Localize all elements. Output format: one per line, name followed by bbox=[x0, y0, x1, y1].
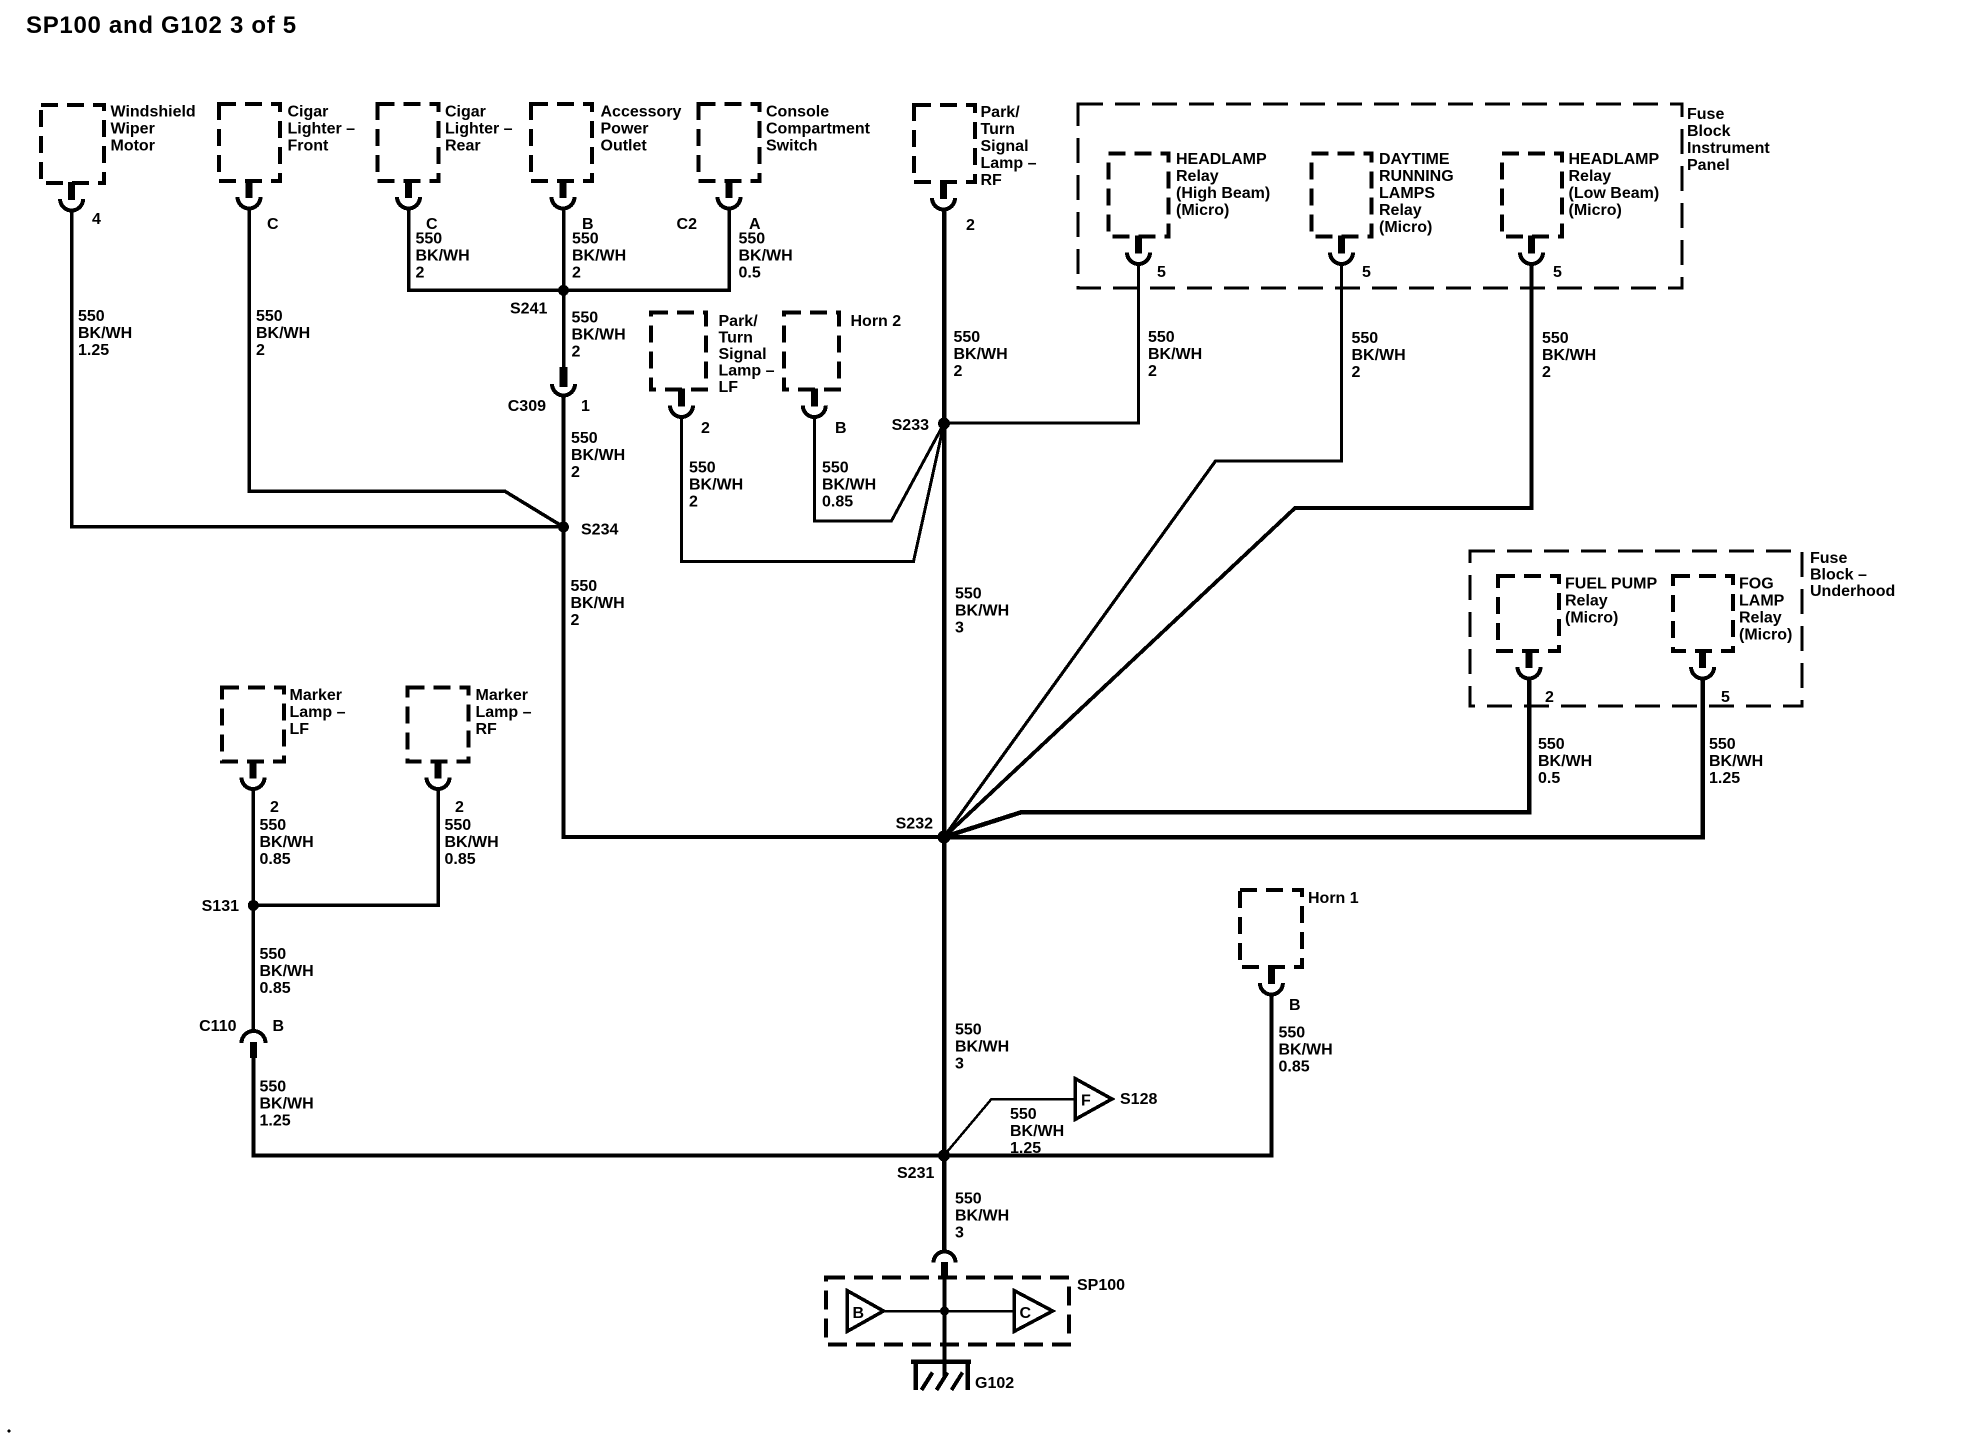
svg-text:(Micro): (Micro) bbox=[1565, 610, 1618, 627]
in-line connector above SP100 bbox=[934, 1252, 956, 1279]
svg-text:BK/WH: BK/WH bbox=[260, 1096, 314, 1113]
svg-text:BK/WH: BK/WH bbox=[1279, 1042, 1333, 1059]
svg-text:BK/WH: BK/WH bbox=[78, 325, 132, 342]
svg-text:1.25: 1.25 bbox=[1709, 770, 1740, 787]
svg-text:BK/WH: BK/WH bbox=[571, 447, 625, 464]
svg-text:BK/WH: BK/WH bbox=[955, 1039, 1009, 1056]
svg-text:550: 550 bbox=[1538, 736, 1565, 753]
relay U: HEADLAMP Relay (High Beam)(Micro) bbox=[1109, 151, 1271, 237]
svg-text:550: 550 bbox=[1148, 329, 1175, 346]
component box: Cigar Lighter - Front bbox=[219, 104, 355, 182]
wire: S231 to S128 bbox=[944, 1099, 1075, 1156]
component box: Cigar Lighter - Rear bbox=[378, 104, 513, 182]
wire label 550 BK/WH 1.25 below C110 bbox=[260, 1079, 314, 1130]
svg-text:G102: G102 bbox=[975, 1375, 1014, 1392]
svg-text:550: 550 bbox=[955, 1022, 982, 1039]
svg-text:B: B bbox=[1289, 997, 1301, 1014]
svg-text:2: 2 bbox=[270, 799, 279, 816]
svg-text:Front: Front bbox=[288, 138, 330, 155]
svg-text:550: 550 bbox=[1010, 1106, 1037, 1123]
component box: Accessory Power Outlet bbox=[531, 104, 682, 182]
svg-text:S232: S232 bbox=[896, 816, 933, 833]
wire label 550 BK/WH 2 bbox=[954, 329, 1008, 380]
svg-text:550: 550 bbox=[954, 329, 981, 346]
svg-text:BK/WH: BK/WH bbox=[260, 963, 314, 980]
wire label 550 BK/WH 1.25 on S128 branch bbox=[1010, 1106, 1064, 1157]
svg-text:5: 5 bbox=[1157, 264, 1166, 281]
in-line connector C309 pin 1 bbox=[508, 367, 590, 415]
svg-text:1: 1 bbox=[581, 398, 590, 415]
svg-text:RF: RF bbox=[476, 721, 498, 738]
svg-text:2: 2 bbox=[1545, 689, 1554, 706]
splice pack SP100 (dashed enclosure) bbox=[826, 1277, 1125, 1345]
svg-text:550: 550 bbox=[416, 231, 443, 248]
splice S234 bbox=[558, 522, 618, 539]
svg-text:SP100: SP100 bbox=[1077, 1277, 1125, 1294]
svg-text:0.85: 0.85 bbox=[1279, 1059, 1310, 1076]
svg-text:BK/WH: BK/WH bbox=[571, 595, 625, 612]
in-line connector C110 pin B bbox=[199, 1018, 284, 1058]
wire label 550 BK/WH 0.85 bbox=[445, 817, 499, 868]
svg-text:1.25: 1.25 bbox=[260, 1113, 291, 1130]
svg-text:BK/WH: BK/WH bbox=[739, 248, 793, 265]
svg-text:BK/WH: BK/WH bbox=[256, 325, 310, 342]
wire label 550 BK/WH 2 bbox=[1542, 330, 1596, 381]
svg-text:DAYTIME: DAYTIME bbox=[1379, 151, 1450, 168]
component box: Park/Turn Signal Lamp - RF bbox=[914, 104, 1037, 189]
wire: FUEL PUMP Relay to S232 bbox=[944, 677, 1529, 837]
svg-text:C309: C309 bbox=[508, 398, 546, 415]
svg-text:Motor: Motor bbox=[111, 138, 155, 155]
component box: Marker Lamp - RF bbox=[408, 687, 532, 762]
connector pin 2 of Marker Lamp - LF bbox=[242, 761, 280, 817]
svg-text:1.25: 1.25 bbox=[1010, 1140, 1041, 1157]
svg-text:B: B bbox=[835, 420, 847, 437]
svg-text:BK/WH: BK/WH bbox=[416, 248, 470, 265]
svg-text:0.85: 0.85 bbox=[445, 851, 476, 868]
svg-text:Relay: Relay bbox=[1739, 610, 1782, 627]
svg-text:550: 550 bbox=[1542, 330, 1569, 347]
connector pin 2 of Marker Lamp - RF bbox=[427, 761, 465, 817]
wire: Console Compartment Switch to S241 bbox=[564, 207, 730, 290]
connector pin 4 of Windshield Wiper Motor bbox=[60, 182, 101, 228]
wire label 550 BK/WH 2 below C309 bbox=[571, 430, 625, 481]
svg-text:S231: S231 bbox=[897, 1165, 934, 1182]
svg-text:Outlet: Outlet bbox=[601, 138, 648, 155]
svg-text:S128: S128 bbox=[1120, 1091, 1157, 1108]
svg-text:(Micro): (Micro) bbox=[1739, 627, 1792, 644]
svg-text:Park/: Park/ bbox=[981, 104, 1021, 121]
svg-text:BK/WH: BK/WH bbox=[1542, 347, 1596, 364]
svg-text:LF: LF bbox=[719, 379, 739, 396]
svg-text:Power: Power bbox=[601, 121, 649, 138]
wire label 550 BK/WH 0.5 bbox=[1538, 736, 1592, 787]
svg-text:FOG: FOG bbox=[1739, 576, 1774, 593]
svg-text:550: 550 bbox=[572, 310, 599, 327]
svg-text:BK/WH: BK/WH bbox=[822, 477, 876, 494]
connector pin 2 of Park/Turn Signal Lamp - LF bbox=[670, 389, 710, 438]
svg-text:2: 2 bbox=[571, 612, 580, 629]
connector pin 5 of HEADLAMP Relay (High Beam) bbox=[1127, 236, 1166, 282]
svg-text:Lamp –: Lamp – bbox=[476, 704, 532, 721]
svg-text:Marker: Marker bbox=[290, 687, 342, 704]
svg-text:Relay: Relay bbox=[1565, 593, 1608, 610]
svg-text:0.85: 0.85 bbox=[260, 980, 291, 997]
svg-text:Lamp –: Lamp – bbox=[719, 363, 775, 380]
svg-text:(Low Beam): (Low Beam) bbox=[1569, 185, 1660, 202]
svg-text:LAMPS: LAMPS bbox=[1379, 185, 1435, 202]
svg-text:Turn: Turn bbox=[981, 121, 1015, 138]
svg-text:S131: S131 bbox=[202, 898, 239, 915]
wire: Horn 1 to S231 bbox=[944, 993, 1271, 1156]
svg-text:Turn: Turn bbox=[719, 330, 753, 347]
splice S233 bbox=[892, 417, 950, 434]
splice S131 bbox=[202, 898, 259, 915]
wire label 550 BK/WH 3 below S231 bbox=[955, 1191, 1009, 1242]
wire: main spine Park/Turn RF through S233, S232, S231 to SP100 bbox=[942, 208, 947, 1252]
svg-text:Fuse: Fuse bbox=[1810, 550, 1847, 567]
node S128 (off-page triangle F) bbox=[1075, 1079, 1157, 1120]
svg-text:Park/: Park/ bbox=[719, 313, 759, 330]
splice S241 bbox=[510, 285, 569, 318]
svg-text:2: 2 bbox=[1542, 364, 1551, 381]
wire: DAYTIME RUNNING LAMPS Relay to S232 bbox=[944, 262, 1342, 837]
wire: Cigar Lighter - Rear to S241 bbox=[409, 207, 561, 290]
svg-text:RF: RF bbox=[981, 172, 1003, 189]
svg-text:B: B bbox=[273, 1018, 285, 1035]
svg-text:5: 5 bbox=[1362, 264, 1371, 281]
svg-text:Block –: Block – bbox=[1810, 567, 1867, 584]
svg-text:550: 550 bbox=[739, 231, 766, 248]
svg-text:BK/WH: BK/WH bbox=[1148, 346, 1202, 363]
svg-text:S241: S241 bbox=[510, 301, 547, 318]
svg-text:550: 550 bbox=[822, 460, 849, 477]
svg-text:2: 2 bbox=[256, 342, 265, 359]
svg-text:4: 4 bbox=[92, 211, 101, 228]
svg-text:(Micro): (Micro) bbox=[1379, 219, 1432, 236]
wire label 550 BK/WH 2 bbox=[1148, 329, 1202, 380]
svg-text:2: 2 bbox=[572, 265, 581, 282]
svg-text:C: C bbox=[1020, 1305, 1032, 1322]
wire: Park/Turn Signal Lamp LF to S233 bbox=[682, 415, 945, 562]
svg-text:0.5: 0.5 bbox=[739, 265, 761, 282]
svg-text:550: 550 bbox=[571, 578, 598, 595]
svg-text:HEADLAMP: HEADLAMP bbox=[1569, 151, 1660, 168]
svg-text:Rear: Rear bbox=[445, 138, 481, 155]
svg-text:550: 550 bbox=[1279, 1025, 1306, 1042]
wire label 550 BK/WH 0.85 below S131 bbox=[260, 946, 314, 997]
svg-text:2: 2 bbox=[416, 265, 425, 282]
connector pin B of Horn 1 bbox=[1260, 966, 1301, 1014]
wire: through SP100 to G102 bbox=[943, 1278, 947, 1377]
svg-text:Marker: Marker bbox=[476, 687, 528, 704]
svg-text:BK/WH: BK/WH bbox=[445, 834, 499, 851]
svg-text:2: 2 bbox=[1148, 363, 1157, 380]
svg-text:2: 2 bbox=[571, 464, 580, 481]
wire label 550 BK/WH 2 bbox=[689, 460, 743, 511]
connector pin 5 of FOG LAMP Relay bbox=[1691, 650, 1730, 706]
svg-text:HEADLAMP: HEADLAMP bbox=[1176, 151, 1267, 168]
wire: Marker Lamp RF to S131 bbox=[253, 787, 438, 905]
connector pin 2 of Park/Turn Signal Lamp - RF bbox=[932, 181, 975, 234]
svg-text:550: 550 bbox=[572, 231, 599, 248]
svg-text:F: F bbox=[1081, 1093, 1091, 1110]
svg-text:S233: S233 bbox=[892, 417, 929, 434]
fuse block underhood (dashed enclosure) bbox=[1470, 550, 1895, 706]
wire label 550 BK/WH 1.25 bbox=[78, 308, 132, 359]
svg-text:550: 550 bbox=[955, 1191, 982, 1208]
relay U: HEADLAMP Relay (Low Beam)(Micro) bbox=[1502, 151, 1659, 237]
svg-text:550: 550 bbox=[78, 308, 105, 325]
component box: Park/Turn Signal Lamp - LF bbox=[651, 313, 775, 397]
junction dot inside SP100 bbox=[940, 1307, 949, 1316]
svg-text:3: 3 bbox=[955, 1056, 964, 1073]
wire label 550 BK/WH 0.85 bbox=[1279, 1025, 1333, 1076]
svg-text:550: 550 bbox=[955, 586, 982, 603]
svg-text:C: C bbox=[267, 216, 279, 233]
wire: Windshield Wiper Motor to S234 bbox=[72, 209, 560, 527]
svg-text:3: 3 bbox=[955, 620, 964, 637]
ground G102 bbox=[911, 1360, 1014, 1393]
svg-text:Relay: Relay bbox=[1176, 168, 1219, 185]
svg-text:S234: S234 bbox=[581, 522, 618, 539]
svg-text:Panel: Panel bbox=[1687, 157, 1730, 174]
svg-text:2: 2 bbox=[689, 494, 698, 511]
svg-text:2: 2 bbox=[966, 217, 975, 234]
svg-text:Signal: Signal bbox=[981, 138, 1029, 155]
svg-text:Windshield: Windshield bbox=[111, 104, 196, 121]
wire label 550 BK/WH 0.85 bbox=[260, 817, 314, 868]
svg-text:1.25: 1.25 bbox=[78, 342, 109, 359]
wire label 550 BK/WH 2 below S234 bbox=[571, 578, 625, 629]
component box: Horn 1 bbox=[1240, 890, 1359, 967]
svg-text:Relay: Relay bbox=[1379, 202, 1422, 219]
svg-text:550: 550 bbox=[260, 817, 287, 834]
connector pins C2 / A of Console Compartment Switch bbox=[677, 180, 761, 233]
svg-text:0.5: 0.5 bbox=[1538, 770, 1560, 787]
svg-text:5: 5 bbox=[1553, 264, 1562, 281]
wire label 550 BK/WH 3 between S233 and S232 bbox=[955, 586, 1009, 637]
svg-text:Lamp –: Lamp – bbox=[290, 704, 346, 721]
svg-text:BK/WH: BK/WH bbox=[1538, 753, 1592, 770]
svg-text:2: 2 bbox=[701, 420, 710, 437]
svg-text:550: 550 bbox=[689, 460, 716, 477]
svg-text:550: 550 bbox=[1709, 736, 1736, 753]
svg-text:(Micro): (Micro) bbox=[1176, 202, 1229, 219]
wire label 550 BK/WH 2 bbox=[1352, 330, 1406, 381]
svg-text:BK/WH: BK/WH bbox=[572, 248, 626, 265]
wire label 550 BK/WH 0.85 bbox=[822, 460, 876, 511]
relay U: FUEL PUMP Relay (Micro) bbox=[1498, 576, 1657, 652]
wire: FOG LAMP Relay to S232 bbox=[944, 677, 1703, 837]
svg-text:BK/WH: BK/WH bbox=[689, 477, 743, 494]
svg-text:(High Beam): (High Beam) bbox=[1176, 185, 1270, 202]
svg-text:Lamp –: Lamp – bbox=[981, 155, 1037, 172]
svg-text:2: 2 bbox=[572, 344, 581, 361]
svg-text:BK/WH: BK/WH bbox=[1709, 753, 1763, 770]
svg-text:Horn 2: Horn 2 bbox=[851, 313, 902, 330]
svg-text:Lighter –: Lighter – bbox=[288, 121, 356, 138]
svg-text:RUNNING: RUNNING bbox=[1379, 168, 1454, 185]
splice S232 bbox=[896, 816, 951, 844]
svg-text:Horn 1: Horn 1 bbox=[1308, 890, 1359, 907]
svg-text:C2: C2 bbox=[677, 216, 698, 233]
svg-text:Relay: Relay bbox=[1569, 168, 1612, 185]
svg-text:C110: C110 bbox=[199, 1018, 236, 1035]
svg-text:BK/WH: BK/WH bbox=[954, 346, 1008, 363]
node B (off-page triangle inside SP100) bbox=[847, 1291, 884, 1332]
svg-text:Wiper: Wiper bbox=[111, 121, 155, 138]
connector pin 5 of HEADLAMP Relay (Low Beam) bbox=[1520, 236, 1562, 282]
svg-text:Lighter –: Lighter – bbox=[445, 121, 513, 138]
svg-text:BK/WH: BK/WH bbox=[260, 834, 314, 851]
node C (off-page triangle inside SP100) bbox=[1014, 1291, 1053, 1332]
svg-text:550: 550 bbox=[1352, 330, 1379, 347]
svg-text:LF: LF bbox=[290, 721, 310, 738]
svg-text:BK/WH: BK/WH bbox=[955, 1208, 1009, 1225]
connector pin B of Accessory Power Outlet bbox=[552, 180, 594, 233]
wire: C110 to S231 bbox=[253, 1056, 944, 1156]
svg-text:Cigar: Cigar bbox=[288, 104, 329, 121]
component box: Marker Lamp - LF bbox=[222, 687, 346, 762]
wire label 550 BK/WH 1.25 bbox=[1709, 736, 1763, 787]
svg-text:BK/WH: BK/WH bbox=[1352, 347, 1406, 364]
component box: Horn 2 bbox=[784, 313, 901, 390]
wire inside SP100 from B to C bbox=[884, 1310, 1014, 1313]
svg-text:550: 550 bbox=[260, 1079, 287, 1096]
wire: Accessory Power Outlet to S241 to C309 bbox=[562, 207, 566, 367]
svg-text:2: 2 bbox=[455, 799, 464, 816]
connector pin 2 of FUEL PUMP Relay bbox=[1518, 650, 1555, 706]
svg-text:Compartment: Compartment bbox=[766, 121, 871, 138]
stray page dot bottom-left bbox=[8, 1430, 11, 1433]
svg-text:Block: Block bbox=[1687, 123, 1731, 140]
wire: Marker Lamp LF through S131 to C110 bbox=[251, 787, 255, 1031]
svg-text:Instrument: Instrument bbox=[1687, 140, 1770, 157]
svg-text:BK/WH: BK/WH bbox=[1010, 1123, 1064, 1140]
wire label 550 BK/WH 2 below S241 bbox=[572, 310, 626, 361]
svg-text:LAMP: LAMP bbox=[1739, 593, 1785, 610]
connector pin B of Horn 2 bbox=[803, 389, 847, 438]
component box: Console Compartment Switch bbox=[699, 104, 871, 182]
svg-text:B: B bbox=[853, 1305, 865, 1322]
svg-text:BK/WH: BK/WH bbox=[955, 603, 1009, 620]
svg-text:Underhood: Underhood bbox=[1810, 583, 1895, 600]
svg-text:550: 550 bbox=[256, 308, 283, 325]
svg-text:3: 3 bbox=[955, 1225, 964, 1242]
svg-text:BK/WH: BK/WH bbox=[572, 327, 626, 344]
splice S231 bbox=[897, 1150, 950, 1183]
connector pin C of Cigar Lighter - Rear bbox=[397, 180, 438, 233]
svg-text:550: 550 bbox=[571, 430, 598, 447]
wire: Cigar Lighter - Front to S234 bbox=[249, 207, 564, 527]
svg-text:Signal: Signal bbox=[719, 346, 767, 363]
wire: Horn 2 to S233 bbox=[814, 415, 944, 521]
svg-text:550: 550 bbox=[260, 946, 287, 963]
svg-text:2: 2 bbox=[1352, 364, 1361, 381]
svg-text:2: 2 bbox=[954, 363, 963, 380]
wire label 550 BK/WH 2 bbox=[572, 231, 626, 282]
svg-text:FUEL PUMP: FUEL PUMP bbox=[1565, 576, 1657, 593]
wire: HEADLAMP Relay (Low Beam) to S232 bbox=[944, 262, 1532, 837]
svg-text:550: 550 bbox=[445, 817, 472, 834]
svg-text:0.85: 0.85 bbox=[260, 851, 291, 868]
relay U: DAYTIME RUNNING LAMPS Relay (Micro) bbox=[1312, 151, 1454, 237]
fuse block instrument panel (dashed enclosure) bbox=[1078, 104, 1770, 288]
svg-text:Cigar: Cigar bbox=[445, 104, 486, 121]
wire: C309 through S234 down and right to S232 bbox=[564, 396, 945, 838]
svg-text:0.85: 0.85 bbox=[822, 494, 853, 511]
relay U: FOG LAMP Relay (Micro) bbox=[1673, 576, 1792, 652]
svg-text:SP100 and G102 3 of 5: SP100 and G102 3 of 5 bbox=[26, 12, 297, 39]
svg-text:Fuse: Fuse bbox=[1687, 106, 1724, 123]
svg-text:Console: Console bbox=[766, 104, 829, 121]
wire label 550 BK/WH 2 bbox=[256, 308, 310, 359]
component box: Windshield Wiper Motor bbox=[41, 104, 196, 184]
wire label 550 BK/WH 2 bbox=[416, 231, 470, 282]
connector pin 5 of DAYTIME RUNNING LAMPS Relay bbox=[1330, 236, 1371, 282]
svg-text:(Micro): (Micro) bbox=[1569, 202, 1622, 219]
connector pin C of Cigar Lighter - Front bbox=[238, 180, 280, 233]
svg-text:Accessory: Accessory bbox=[601, 104, 682, 121]
svg-text:5: 5 bbox=[1721, 689, 1730, 706]
svg-text:Switch: Switch bbox=[766, 138, 818, 155]
wire label 550 BK/WH 3 above S231 bbox=[955, 1022, 1009, 1073]
wire label 550 BK/WH 0.5 bbox=[739, 231, 793, 282]
wire: HEADLAMP Relay (High Beam) to S233 bbox=[944, 262, 1139, 423]
